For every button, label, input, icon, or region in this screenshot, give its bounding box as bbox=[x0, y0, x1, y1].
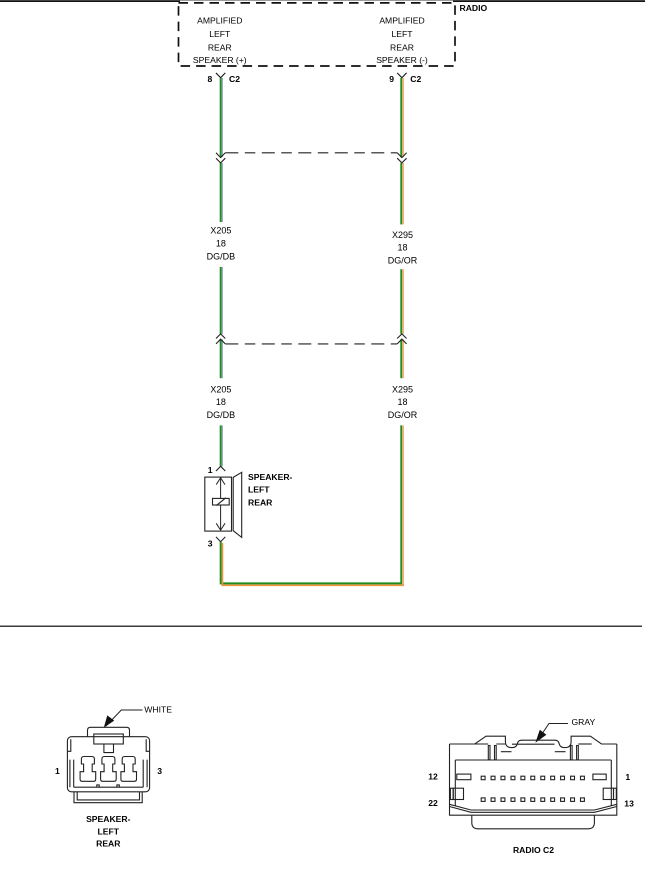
svg-text:REAR: REAR bbox=[96, 839, 121, 849]
wire label X295 18 DG/OR lower bbox=[388, 384, 418, 420]
svg-text:X205: X205 bbox=[210, 384, 231, 394]
top border line left segment bbox=[0, 0, 180, 2]
terminal 1 bbox=[80, 757, 96, 782]
speaker axis line with arrows bbox=[216, 478, 225, 530]
wire DG/DB vertical segments (left, green + dark blue tracer) bbox=[221, 78, 223, 466]
svg-text:DG/OR: DG/OR bbox=[388, 256, 418, 266]
pin row 2 bbox=[481, 798, 584, 802]
inner wall right bbox=[610, 760, 612, 806]
corner bracket right bbox=[603, 788, 613, 799]
section separator line bbox=[0, 625, 642, 627]
svg-text:18: 18 bbox=[397, 243, 407, 253]
svg-text:LEFT: LEFT bbox=[209, 29, 231, 39]
wire DG/OR return path orange tracer bbox=[221, 543, 404, 585]
pin row 1 bbox=[481, 776, 584, 780]
corner bracket left bbox=[450, 788, 453, 799]
wing base line left bbox=[475, 743, 506, 745]
in-line connector 1 right chevron bbox=[397, 158, 406, 163]
svg-text:3: 3 bbox=[157, 766, 162, 776]
svg-text:LEFT: LEFT bbox=[391, 29, 413, 39]
in-line connector 2 left fork bbox=[216, 339, 225, 344]
svg-text:GRAY: GRAY bbox=[572, 717, 596, 727]
svg-text:SPEAKER-: SPEAKER- bbox=[248, 472, 293, 482]
svg-text:1: 1 bbox=[55, 766, 60, 776]
svg-text:8: 8 bbox=[208, 74, 213, 84]
in-line connector 2 right fork bbox=[397, 339, 406, 344]
label amplified left rear speaker (-) bbox=[376, 16, 428, 66]
in-line connector 2 right chevron bbox=[397, 334, 406, 339]
svg-text:3: 3 bbox=[208, 539, 213, 549]
in-line connector 2 dashed link bbox=[225, 343, 397, 345]
in-line connector 2 left chevron bbox=[216, 334, 225, 339]
svg-text:REAR: REAR bbox=[208, 43, 232, 53]
slot wall 1 bbox=[488, 746, 490, 760]
wing base line right bbox=[578, 743, 591, 745]
bottom skirt outer bbox=[74, 792, 142, 803]
body corner detail left bbox=[68, 739, 71, 751]
top grey hairline bbox=[0, 0, 645, 2]
connector view: radio C2 (gray) bbox=[450, 724, 617, 829]
speaker flare bbox=[233, 472, 242, 537]
body corner detail right bbox=[146, 739, 149, 751]
speaker pin 3 fork bbox=[216, 537, 225, 542]
wire label X205 18 DG/DB lower bbox=[207, 384, 236, 420]
svg-text:SPEAKER (+): SPEAKER (+) bbox=[193, 55, 247, 65]
bottom chamfer lower bbox=[450, 807, 617, 813]
connector top tab bbox=[88, 727, 130, 736]
body bottom interior line bbox=[74, 786, 144, 788]
wide pin right bbox=[593, 774, 606, 780]
svg-text:18: 18 bbox=[397, 397, 407, 407]
radio component dashed box bbox=[179, 3, 456, 66]
speaker coil box bbox=[213, 498, 230, 505]
bottom skirt inner bbox=[77, 792, 139, 800]
svg-text:DG/DB: DG/DB bbox=[207, 410, 236, 420]
gray callout arrow bbox=[538, 724, 569, 741]
svg-text:X205: X205 bbox=[210, 226, 231, 236]
inner top line bbox=[455, 759, 611, 761]
top border line right segment bbox=[453, 0, 645, 2]
slot wall 3 bbox=[570, 746, 572, 760]
svg-text:SPEAKER (-): SPEAKER (-) bbox=[376, 55, 428, 65]
wire DG/OR right vertical lower tracer bbox=[402, 425, 404, 584]
in-line connector 1 left fork bbox=[216, 153, 225, 158]
white callout arrow bbox=[106, 710, 143, 726]
slot wall 2 bbox=[495, 746, 497, 760]
svg-text:1: 1 bbox=[208, 465, 213, 475]
wire DG/OR return path green bbox=[220, 425, 403, 583]
wire label X205 18 DG/DB upper bbox=[207, 226, 236, 262]
svg-text:REAR: REAR bbox=[248, 498, 273, 508]
speaker coil diagonal bbox=[216, 498, 226, 506]
svg-text:22: 22 bbox=[428, 798, 438, 808]
bottom skirt bbox=[472, 815, 595, 829]
svg-text:SPEAKER-: SPEAKER- bbox=[86, 814, 131, 824]
svg-text:C2: C2 bbox=[229, 74, 240, 84]
plateau underside line bbox=[512, 743, 555, 745]
in-line connector 1 left chevron bbox=[216, 158, 225, 163]
top silhouette bbox=[450, 736, 617, 747]
speaker symbol body bbox=[205, 477, 232, 531]
label amplified left rear speaker (+) bbox=[193, 16, 247, 66]
svg-text:LEFT: LEFT bbox=[248, 485, 270, 495]
svg-text:18: 18 bbox=[216, 397, 226, 407]
connector top tab inner rect bbox=[94, 734, 124, 744]
inner wall left bbox=[454, 760, 456, 806]
svg-text:9: 9 bbox=[389, 74, 394, 84]
svg-text:12: 12 bbox=[428, 771, 438, 781]
svg-text:X295: X295 bbox=[392, 384, 413, 394]
svg-text:X295: X295 bbox=[392, 230, 413, 240]
svg-text:C2: C2 bbox=[410, 74, 421, 84]
svg-text:DG/OR: DG/OR bbox=[388, 410, 418, 420]
bottom notch 1 bbox=[97, 785, 99, 787]
svg-text:AMPLIFIED: AMPLIFIED bbox=[197, 16, 242, 26]
wire label X295 18 DG/OR upper bbox=[388, 230, 418, 266]
latch shelf right bbox=[555, 751, 566, 753]
svg-text:1: 1 bbox=[625, 772, 630, 782]
svg-text:AMPLIFIED: AMPLIFIED bbox=[379, 16, 424, 26]
svg-text:RADIO: RADIO bbox=[460, 3, 488, 13]
svg-text:DG/DB: DG/DB bbox=[207, 252, 236, 262]
pin 8 C2 fork (radio) bbox=[216, 73, 225, 78]
wire DG/OR vertical segments (right, green + orange tracer) bbox=[401, 78, 403, 378]
svg-text:18: 18 bbox=[216, 239, 226, 249]
in-line connector 1 dashed link bbox=[225, 152, 397, 154]
svg-text:REAR: REAR bbox=[390, 43, 414, 53]
slot wall 4 bbox=[577, 746, 579, 760]
body right rail bbox=[143, 760, 147, 788]
speaker pin 1 fork bbox=[216, 466, 225, 471]
bottom chamfer upper bbox=[450, 804, 617, 810]
terminal 3 bbox=[121, 757, 137, 782]
caption SPEAKER-LEFT REAR bbox=[86, 814, 131, 849]
label SPEAKER-LEFT REAR (schematic) bbox=[248, 472, 293, 508]
terminal 2 bbox=[101, 757, 117, 782]
in-line connector 1 right fork bbox=[397, 153, 406, 158]
svg-text:WHITE: WHITE bbox=[144, 705, 172, 715]
body left rail bbox=[70, 760, 74, 788]
connector view: speaker-left rear (white) bbox=[67, 710, 149, 803]
svg-text:LEFT: LEFT bbox=[98, 826, 120, 836]
wide pin left bbox=[457, 774, 471, 780]
pin 9 C2 fork (radio) bbox=[397, 73, 406, 78]
bottom notch 2 bbox=[117, 785, 119, 787]
body outline left and right bbox=[450, 744, 617, 815]
svg-text:RADIO C2: RADIO C2 bbox=[513, 845, 554, 855]
connector top tab key bbox=[104, 744, 114, 753]
latch shelf left bbox=[501, 751, 512, 753]
svg-text:13: 13 bbox=[624, 798, 634, 808]
connector body bbox=[67, 737, 149, 792]
